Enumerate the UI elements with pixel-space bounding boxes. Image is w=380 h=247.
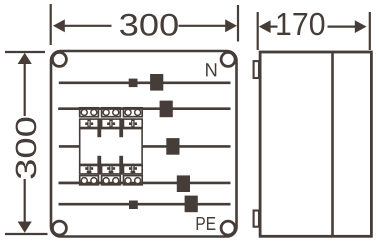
dimension 170: right extension line xyxy=(369,12,371,50)
arrow marker top cell 2 xyxy=(107,119,115,127)
terminal top clamp row box 2 xyxy=(102,108,121,117)
separator bar top left xyxy=(97,118,101,137)
cable clamp large on wire PE xyxy=(185,196,198,213)
terminal bottom clamp row box 1 xyxy=(80,176,99,185)
wire PE busbar xyxy=(59,203,231,206)
corner screw top-right xyxy=(221,52,235,66)
terminal bottom clamp row box 3 xyxy=(124,176,143,185)
wire L3 overlay across clamp boxes xyxy=(59,182,144,184)
front view enclosure box xyxy=(51,51,237,237)
dimension 300 horizontal: left extension line xyxy=(50,4,52,45)
separator bar top right xyxy=(119,118,123,137)
dimension 300 vertical: bottom extension line xyxy=(5,233,48,235)
dimension 170: right line segment xyxy=(328,26,358,28)
corner screw top-left xyxy=(52,52,66,66)
dimension 300 vertical: top extension line xyxy=(5,51,45,53)
label N xyxy=(206,63,216,76)
dimension 300 horizontal: left arrowhead xyxy=(53,19,65,32)
terminal bottom clamp row box 2 xyxy=(102,176,121,185)
corner screw bottom-right xyxy=(221,221,235,235)
terminal clamp small on wire N xyxy=(129,79,138,88)
clamp screw circles bottom row xyxy=(81,178,140,184)
wire L1 busbar xyxy=(58,107,230,110)
dimension 300 horizontal: right line segment xyxy=(179,25,227,27)
dimension 170: right arrowhead xyxy=(355,20,367,33)
dimension 300 vertical: label 300 rotated xyxy=(16,118,37,179)
clamp screw circles top row xyxy=(81,109,140,115)
arrow marker top cell 3 xyxy=(129,119,137,127)
arrow marker bottom cell 2 xyxy=(107,166,115,174)
dimension 300 vertical: upper line segment xyxy=(24,64,26,116)
cable clamp large on wire L2 xyxy=(166,138,179,155)
terminal top arrow cell 2 xyxy=(102,119,121,127)
cable clamp large on wire L1 xyxy=(160,101,173,118)
dimension 300 horizontal: right arrowhead xyxy=(225,19,237,32)
terminal top arrow cell 3 xyxy=(124,119,143,127)
wire L2 busbar xyxy=(59,145,231,148)
side view enclosure box xyxy=(260,52,371,236)
cable clamp large on wire L3 xyxy=(177,175,190,192)
dimension 300 vertical: lower line segment xyxy=(24,179,26,222)
separator bar bottom right xyxy=(119,156,123,175)
side view hinge tab bottom xyxy=(254,211,259,227)
separator bar bottom left xyxy=(97,156,101,175)
terminal block assembly body xyxy=(80,129,142,165)
dimension 170: left arrowhead xyxy=(259,20,271,33)
dimension 300 horizontal: label 300 xyxy=(120,14,178,36)
terminal bottom arrow cell 3 xyxy=(124,166,143,174)
label PE xyxy=(197,217,216,230)
terminal top clamp row box 3 xyxy=(124,108,143,117)
arrow marker top cell 1 xyxy=(85,119,93,127)
corner screw bottom-left xyxy=(52,221,66,235)
dimension 300 horizontal: right extension line xyxy=(237,5,239,42)
arrow marker bottom cell 3 xyxy=(129,166,137,174)
dimension 170: left line segment xyxy=(270,26,278,28)
side view lid split line xyxy=(331,52,334,236)
dimension 170: label 170 xyxy=(277,13,324,36)
dimension 300 horizontal: left line segment xyxy=(64,25,112,27)
dimension 300 vertical: bottom arrowhead xyxy=(18,222,32,233)
terminal clamp small on wire PE xyxy=(129,201,138,210)
terminal bottom arrow cell 1 xyxy=(80,166,99,174)
dimension 300 vertical: top arrowhead xyxy=(18,53,32,64)
terminal bottom arrow cell 2 xyxy=(102,166,121,174)
side view hinge tab top xyxy=(254,61,259,78)
dimension 170: left extension line xyxy=(257,12,259,50)
wire L1 overlay across clamp boxes xyxy=(58,107,143,109)
wire N busbar xyxy=(59,82,231,85)
wire L3 busbar xyxy=(59,182,231,185)
arrow marker bottom cell 1 xyxy=(85,166,93,174)
terminal top arrow cell 1 xyxy=(80,119,99,127)
terminal top clamp row box 1 xyxy=(80,108,99,117)
cable clamp large on wire N xyxy=(150,74,163,91)
